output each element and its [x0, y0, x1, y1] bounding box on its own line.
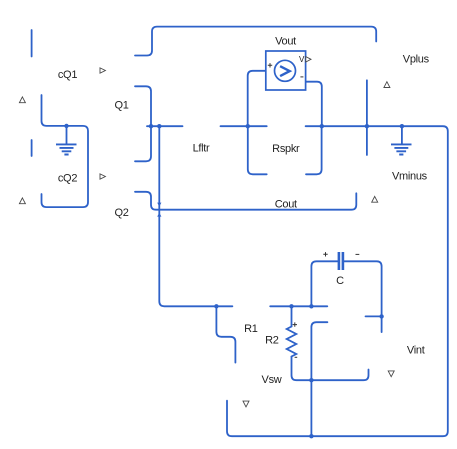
source cQ1/cQ2 outer wire: [42, 95, 89, 207]
svg-text:Q1: Q1: [115, 100, 129, 112]
resistor Rspkr right bracket: [306, 126, 322, 174]
marker triangle down Vint: [388, 371, 394, 377]
source cQ2 bar: [31, 140, 33, 156]
node Vint junction: [379, 314, 383, 318]
label voltmeter plus: [268, 63, 272, 67]
wire node A segment: [147, 125, 183, 127]
svg-text:R1: R1: [244, 323, 258, 335]
svg-text:Vint: Vint: [407, 344, 425, 356]
voltmeter U1 leads: [248, 71, 275, 126]
svg-text:R2: R2: [265, 335, 279, 347]
marker triangle down bottom-left: [243, 401, 249, 407]
marker triangle right cQ2: [100, 174, 105, 179]
marker triangle up Vminus end: [372, 196, 378, 202]
transistor Q1 bracket: [135, 86, 151, 161]
ground G1: [56, 126, 77, 155]
wire Vplus-to-Q1 top loop: [135, 27, 376, 56]
node Rspkr right junction: [320, 124, 324, 128]
label R2 minus: [295, 356, 298, 358]
node Vplus junction: [365, 124, 369, 128]
svg-text:Rspkr: Rspkr: [272, 143, 300, 155]
resistor Rspkr left bracket: [248, 126, 267, 174]
node Q1 junction: [149, 124, 153, 128]
wire Vint stub: [366, 315, 382, 317]
node R1 junction: [214, 304, 218, 308]
svg-text:Vout: Vout: [275, 36, 296, 48]
svg-text:cQ2: cQ2: [58, 173, 77, 185]
wire R1 row right segment: [270, 305, 327, 307]
node switch junction: [157, 124, 161, 128]
marker crossing arrows at Cout crossing: [157, 203, 161, 217]
label R2 plus: [293, 322, 297, 326]
source Vplus vertical: [366, 80, 368, 155]
ground G2: [391, 126, 412, 154]
svg-text:Cout: Cout: [275, 198, 297, 210]
marker triangle up cQ2: [19, 198, 25, 204]
node cQ-ground junction: [64, 124, 68, 128]
label C plus: [323, 252, 327, 256]
node Rspkr left junction: [246, 124, 250, 128]
wire integrator vertical to bottom rail: [311, 322, 327, 436]
transistor Q2 bracket and wire Cout line: [135, 192, 356, 210]
label C minus: [356, 253, 360, 255]
label voltmeter V with triangle: [299, 55, 311, 64]
wire R1 staircase stub: [216, 306, 235, 362]
wire switch-node vertical to R1 row: [159, 126, 232, 306]
wire node B segment: [221, 125, 267, 127]
svg-text:Vsw: Vsw: [262, 374, 282, 386]
svg-text:Vminus: Vminus: [392, 171, 428, 183]
wire node C with right rail and bottom rail: [227, 126, 448, 436]
svg-text:C: C: [336, 275, 344, 287]
svg-text:Lfltr: Lfltr: [193, 143, 210, 155]
node R2 top junction: [289, 304, 293, 308]
node bottom rail junction: [309, 434, 313, 438]
marker triangle up Vplus: [384, 82, 390, 88]
source cQ1 bar: [31, 30, 33, 57]
voltmeter U1 body: [266, 51, 306, 90]
node C left junction: [309, 304, 313, 308]
label voltmeter minus: [300, 76, 303, 78]
marker triangle right cQ1: [100, 68, 105, 73]
capacitor C leads: [311, 261, 337, 306]
svg-text:cQ1: cQ1: [58, 69, 77, 81]
node Vsw junction: [309, 378, 313, 382]
node ground G2 junction: [400, 124, 404, 128]
resistor R2 with leads: [287, 306, 369, 380]
capacitor C plates: [339, 252, 343, 270]
svg-text:Vplus: Vplus: [403, 54, 430, 66]
svg-text:Q2: Q2: [115, 207, 129, 219]
marker triangle up cQ1: [19, 97, 25, 103]
